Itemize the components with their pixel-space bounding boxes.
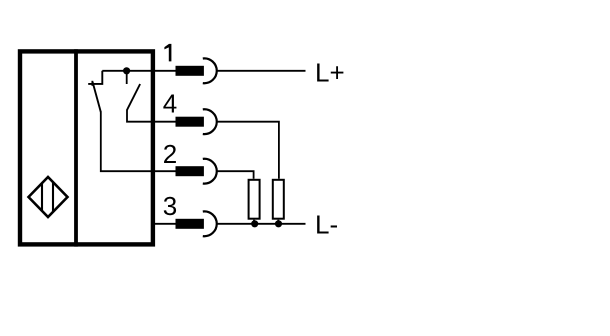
pin 3 plug contact	[176, 219, 204, 229]
switch NO contact blade (to pin 4)	[127, 84, 140, 110]
wire: NO contact terminal to pin 4 plug	[127, 110, 176, 122]
pin 1 socket arc	[203, 58, 217, 83]
pin 1 plug contact	[176, 66, 204, 76]
pin 3 socket arc	[203, 211, 217, 236]
node: junction R2 on L- wire	[275, 220, 282, 227]
switch NC contact blade (to pin 2)	[93, 82, 101, 112]
proximity sensor symbol inner bar right	[52, 183, 54, 212]
wire: R2 bottom stub	[277, 220, 279, 224]
resistor R1 (load)	[249, 180, 260, 219]
wire: body to pin 3 plug	[153, 223, 176, 225]
label pin 1	[164, 44, 171, 62]
switch NC contact tick	[91, 81, 93, 86]
wire: stub from junction down to NO contact	[126, 71, 128, 84]
proximity sensor symbol inner bar left	[41, 184, 43, 211]
svg-text:2: 2	[163, 139, 177, 169]
svg-text:L-: L-	[315, 210, 338, 240]
wire: pin 2 to load resistor R1	[217, 171, 254, 179]
sensor body outline	[20, 51, 153, 244]
node: junction R1 on L- wire	[251, 220, 258, 227]
wire: R1 bottom stub	[253, 220, 255, 224]
resistor R2 (load)	[273, 180, 284, 219]
wire: pin 1 to L+	[217, 70, 306, 72]
sensor body divider	[74, 49, 78, 246]
pin 4 plug contact	[176, 117, 204, 127]
wire: pin 4 to load resistor R2	[217, 122, 279, 179]
pin 2 socket arc	[203, 159, 217, 184]
wire: pin 3 to L-	[217, 223, 306, 225]
wire: NC contact terminal to pin 2 plug	[101, 112, 176, 172]
svg-text:L+: L+	[315, 58, 345, 88]
proximity sensor symbol (diamond)	[29, 177, 68, 217]
switch NC fixed terminal (from pin 1 rail)	[88, 71, 102, 84]
wire: pin 1 rail inside body to plug	[102, 70, 176, 72]
pin 2 plug contact	[176, 166, 204, 176]
svg-text:4: 4	[163, 88, 177, 118]
node: junction on pin 1 rail	[123, 67, 130, 74]
svg-text:3: 3	[163, 191, 177, 221]
pin 4 socket arc	[203, 109, 217, 134]
